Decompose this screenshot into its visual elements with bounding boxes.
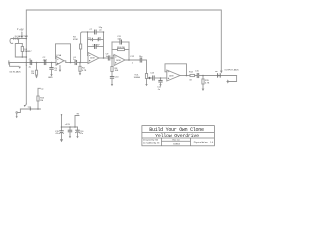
junction U1B output [103,57,105,59]
tiny component labels [9,27,239,135]
svg-text:470K: 470K [73,39,78,41]
wire input row [9,62,56,64]
svg-text:OUTPUT JACK: OUTPUT JACK [224,69,239,72]
capacitor C7 feedback [82,31,95,33]
ground below U1A [59,66,61,70]
ground below C14 [159,84,161,86]
wire feedback loop U2B [165,64,187,76]
svg-text:1u: 1u [106,56,108,58]
ground below C10 [111,84,113,86]
connector at rail end [24,105,26,107]
svg-text:Rev 1.0: Rev 1.0 [172,140,180,142]
svg-text:.1u: .1u [157,89,160,91]
op-amp U1A buffer [56,56,64,65]
junction LED branch [202,75,204,77]
ground below LED [202,89,205,91]
ground below C15 [60,139,63,142]
svg-text:47u: 47u [55,133,58,135]
op-amp U2A stage [114,55,125,66]
diodes D2 D3 clipping [88,39,91,41]
junction feedback left top [87,31,89,33]
svg-text:10u: 10u [139,56,142,58]
junction bias feed [74,126,76,128]
ground below C3 [50,74,52,76]
diode D1 body [21,44,23,47]
svg-text:1M: 1M [31,73,34,75]
junction C17 top [69,126,71,128]
junction rail y57 [26,56,28,58]
wire U1B output [99,57,108,59]
junction C14 top [160,77,162,79]
op-amp U1B gain stage [88,53,99,64]
wire battery minus drop [18,39,20,44]
junction battery to rail [26,38,28,40]
junction D1 bottom [22,56,24,58]
capacitor C12 [139,58,141,62]
wire feedback loop left [111,42,113,58]
capacitor C15 electrolytic [60,130,64,132]
svg-text:1N5817: 1N5817 [24,51,32,53]
svg-text:4.7K: 4.7K [205,82,210,84]
svg-text:+4.5V: +4.5V [65,124,71,126]
svg-text:C8 .047: C8 .047 [92,44,100,46]
op-amp input polarity marks [57,56,169,80]
ground below VOL [145,84,147,86]
junction bias rail left [61,126,63,128]
svg-text:4.7K: 4.7K [82,70,87,72]
switch row wires [20,108,40,110]
wire top +9V rail [26,10,221,71]
svg-text:100KA: 100KA [134,76,141,79]
svg-text:47u: 47u [80,133,83,135]
DC jack hook [10,39,13,44]
capacitor C8 feedback [88,46,95,48]
ground below U1A [59,70,61,72]
wire feedback loop U1A [56,44,71,63]
junction U2A input node [111,57,113,59]
marker input jack ground arrow [19,67,21,69]
capacitor C2 [43,60,45,64]
capacitor C13 [152,76,154,80]
junction C3 top [51,62,53,64]
capacitor C14 [196,73,198,77]
svg-text:+9V: +9V [19,29,24,32]
wire feedback right rail [103,32,105,58]
resistor R4 to ground [79,63,81,67]
junction U2A output [128,59,130,61]
footswitch node [217,74,219,78]
junction R3 R4 node [79,62,81,64]
capacitor C9 [107,56,109,60]
capacitor C3 to ground [51,63,53,68]
capacitor C1 [29,60,31,64]
svg-text:R9 470K: R9 470K [117,47,126,49]
ground below R1 [35,76,37,78]
svg-text:IC1A: IC1A [57,54,62,57]
wire loop to D1 [15,44,26,58]
svg-text:1/4 IN JACK: 1/4 IN JACK [9,70,21,73]
wire feedback loop right [128,42,130,60]
resistor R3 bias feed [81,32,83,44]
junction R1 top [36,62,38,64]
resistor R15 LED chain [202,76,204,80]
junction rail input row [26,62,28,64]
capacitor C17 [69,127,71,130]
svg-text:10K: 10K [115,70,119,72]
junction footswitch [218,75,220,77]
resistor R8 + capacitor C10 to ground [111,58,113,67]
node bias feed top [61,114,62,115]
junction U1A feedback output [70,62,72,64]
junction R13 bottom [37,108,39,110]
bias supply wires [61,115,63,131]
svg-text:cer: cer [99,28,102,31]
ground tick C17 [69,136,71,138]
resistor R13 chain [38,88,40,96]
resistor R9 feedback [112,49,118,51]
junction feedback right top [103,31,105,33]
title block [142,126,215,146]
battery symbol ticks [13,37,15,39]
resistor R1 pulldown [36,63,38,71]
svg-text:Physical bd rev: Physical bd rev [194,141,209,144]
junction U2B output [186,75,188,77]
ground tick C16 [76,136,78,138]
potentiometer VOL [145,74,147,79]
svg-text:1u: 1u [73,59,75,61]
wire U2A output [125,59,140,61]
capacitor C14 shunt to ground [160,78,162,80]
battery / DC adapter row [11,38,26,40]
ground tick switch [16,116,18,118]
ground below R4 [79,73,81,75]
capacitor C4 [74,60,76,64]
power arrow right rail [220,71,223,74]
wire minus input to feedback rail [87,32,90,56]
svg-text:GND: GND [48,77,53,79]
ground symbols (arrows) [16,70,223,143]
svg-text:DC ADAPTER: DC ADAPTER [15,35,29,38]
capacitor C11 feedback [112,41,120,43]
svg-text:.1u: .1u [28,66,31,68]
input jack [8,61,10,64]
op-amp U2B output buffer [167,70,180,81]
svg-text:JL modified by JG: JL modified by JG [143,143,160,145]
svg-text:Build Your Own Clone: Build Your Own Clone [149,127,204,133]
resistor R14 series [190,74,195,76]
capacitor C16 electrolytic [77,127,79,130]
svg-text:Designed by Gol: Designed by Gol [143,140,159,142]
svg-text:5/28/04: 5/28/04 [173,144,181,146]
svg-text:Yellow Overdrive: Yellow Overdrive [155,133,199,139]
output jack [229,76,237,82]
svg-text:1M: 1M [40,100,43,102]
wire left rail vertical [25,38,27,104]
